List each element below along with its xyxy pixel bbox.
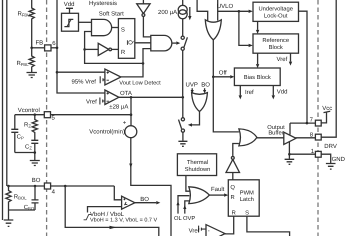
wire BO comp out arrow <box>135 202 156 204</box>
wire INV2 out to AND2 <box>143 16 150 37</box>
svg-text:OL: OL <box>174 215 183 222</box>
pin 8 DRV <box>315 134 321 140</box>
wire AND1 lower input <box>85 32 92 50</box>
ground RBOL <box>4 220 14 226</box>
wire thermal to fault OR <box>186 176 190 192</box>
wire pin7 line <box>290 122 315 124</box>
node BO ext junction 1 <box>7 185 10 188</box>
svg-text:FB: FB <box>36 40 44 47</box>
inverter INV1 <box>98 43 109 55</box>
wire UVP input arrow <box>191 88 193 90</box>
svg-text:Bias Block: Bias Block <box>244 74 271 81</box>
inverter INV3 (PWM latch Q) <box>226 159 240 172</box>
svg-text:BO: BO <box>201 81 210 88</box>
wire CP bottom <box>15 152 35 154</box>
wire BO lower input bracket <box>88 207 122 213</box>
svg-text:Vcontrol(min): Vcontrol(min) <box>89 129 125 136</box>
wire hysteresis out <box>79 21 92 23</box>
IC boundary dashed left <box>46 0 48 236</box>
resistor RFBL <box>29 48 34 72</box>
wire VLD junction down to comparator out <box>121 63 143 77</box>
pin 6 FB <box>45 45 51 51</box>
svg-text:Q: Q <box>127 40 134 45</box>
svg-text:200 µA: 200 µA <box>158 9 177 16</box>
hysteresis block <box>62 13 79 31</box>
node pin7 junction <box>306 122 309 125</box>
ground SW2 <box>178 141 187 146</box>
svg-text:R: R <box>232 211 236 217</box>
switch SW1 <box>181 36 184 39</box>
pin 1 GND <box>315 151 321 157</box>
wire SW2 to ground <box>182 132 184 141</box>
svg-text:PWM: PWM <box>240 190 254 196</box>
wire pin1 line <box>289 153 315 155</box>
comparator marks OTA <box>107 92 109 94</box>
wire latch Q to INV3 <box>232 173 234 180</box>
wire BO to comparator input <box>114 186 121 200</box>
wire VLD junction up to AND2 <box>143 49 151 64</box>
comparator OTA <box>105 90 119 105</box>
svg-text:Fault: Fault <box>211 186 225 193</box>
Vdd symbol (soft start) <box>66 8 73 13</box>
AND gate U1 (soft start) <box>92 19 112 35</box>
wire AND1 out to S <box>112 27 119 29</box>
svg-text:Q: Q <box>230 184 235 191</box>
reference Vref battery <box>100 98 105 105</box>
wire pin6 to internal <box>51 47 57 49</box>
svg-text:Thermal: Thermal <box>187 159 208 166</box>
svg-text:Lock-Out: Lock-Out <box>264 13 288 20</box>
current source Vcontrol(min) <box>125 126 137 138</box>
wire ref to bias arrow <box>257 53 259 64</box>
OR gate U6 (driver OR) <box>239 129 257 146</box>
wire Off arrow to bias <box>213 76 230 78</box>
node FB junction <box>30 47 33 50</box>
block Undervoltage Lock-Out <box>253 2 299 21</box>
resistor RFBU <box>29 0 34 48</box>
wire UVLO inputs <box>197 0 208 21</box>
ground CZ <box>30 161 40 166</box>
switch SW2 <box>181 118 184 121</box>
wire pin1 to ground <box>321 154 331 163</box>
svg-text:Vcontrol: Vcontrol <box>18 107 40 114</box>
hysteresis glyph Vbo <box>84 215 92 220</box>
wire current source down <box>131 138 171 236</box>
svg-text:Vref: Vref <box>277 56 288 63</box>
node 200uA junction <box>182 96 185 99</box>
wire fault out arrow to latch R <box>209 194 224 196</box>
pin 7 Vcc <box>315 120 321 126</box>
svg-text:Latch: Latch <box>240 196 254 203</box>
svg-text:Hysteresis: Hysteresis <box>89 0 117 7</box>
svg-text:RFBU: RFBU <box>18 10 31 17</box>
wire to INV1 <box>85 48 99 50</box>
pin 4 BO <box>44 183 50 189</box>
node BO int junction <box>64 185 67 188</box>
wire Qbar out <box>135 42 151 44</box>
wire BO pin line <box>9 185 45 187</box>
svg-text:Vdd: Vdd <box>277 89 288 96</box>
wire FB internal vertical <box>57 0 105 93</box>
svg-text:Soft Start: Soft Start <box>99 10 124 17</box>
wire buffer ground <box>288 141 290 159</box>
svg-text:RZ: RZ <box>24 122 31 129</box>
node FB-pin junction <box>56 47 59 50</box>
wire FB line <box>32 47 45 49</box>
svg-text:RFBL: RFBL <box>17 60 30 67</box>
node pin5 junction <box>130 113 133 116</box>
OR gate U4 (UVP/BO) <box>192 93 208 112</box>
svg-text:CZ: CZ <box>25 143 32 150</box>
node Off branch <box>212 76 215 79</box>
ground GND pin <box>326 164 336 170</box>
resistor RBOL <box>6 186 11 220</box>
svg-text:Off: Off <box>219 69 227 76</box>
svg-text:95% Vref: 95% Vref <box>72 79 97 86</box>
svg-text:Vcc: Vcc <box>322 105 332 112</box>
wire INV1 out to R <box>112 48 119 50</box>
wire OTA node to SW2 <box>182 97 184 117</box>
wire down to VLD net <box>85 49 143 63</box>
svg-text:R: R <box>121 49 126 56</box>
wire Vcontrol vertical <box>130 97 132 125</box>
wire Vcontrol pin line <box>15 114 44 116</box>
ground RFBL <box>27 73 37 78</box>
node OTA out junction <box>130 96 133 99</box>
wire DRV up <box>321 0 336 137</box>
capacitor CP <box>11 115 18 153</box>
OR gate U8 (fault) <box>189 187 210 204</box>
svg-text:BO: BO <box>140 196 149 203</box>
AND gate U3 (3-input) <box>151 35 172 51</box>
svg-text:+: + <box>123 120 127 126</box>
wire latch S bottom <box>247 216 290 236</box>
svg-text:±28 µA: ±28 µA <box>109 104 128 111</box>
wire OTA out <box>119 96 183 98</box>
node CZ bottom junction <box>34 151 37 154</box>
svg-text:GND: GND <box>332 156 346 163</box>
node Rz junction <box>34 113 37 116</box>
svg-text:BO: BO <box>32 177 41 184</box>
wire CBO bottom <box>9 209 36 211</box>
pin 5 Vcontrol <box>44 112 50 118</box>
wire OL input <box>178 196 189 214</box>
svg-text:Vdd: Vdd <box>64 1 75 8</box>
block Thermal Shutdown <box>177 154 216 176</box>
wire UVLO to box arrow <box>218 10 249 12</box>
inverter INV2 (top, pointing down) <box>137 0 150 14</box>
svg-text:UVLO: UVLO <box>217 3 234 10</box>
svg-text:RBOL: RBOL <box>14 193 27 200</box>
capacitor CZ <box>31 140 38 160</box>
wire UVLO box to Vcc sense <box>299 11 308 123</box>
ground buffer <box>285 159 295 164</box>
OR gate U5 (UVLO) <box>205 20 221 40</box>
wire left edge line B <box>6 0 8 186</box>
svg-text:Block: Block <box>269 44 283 51</box>
Qbar overline <box>126 40 128 45</box>
svg-text:Vout Low Detect: Vout Low Detect <box>119 80 161 86</box>
arrow down on wire <box>129 164 132 169</box>
svg-text:DRV: DRV <box>324 143 337 150</box>
wire INV3 out to OR6 <box>233 144 239 157</box>
block PWM Latch <box>228 180 259 216</box>
svg-text:CBO: CBO <box>24 204 35 211</box>
node FB branch junction <box>56 71 59 74</box>
svg-text:-: - <box>208 229 210 235</box>
wire Vdd arrow <box>272 86 274 96</box>
svg-text:OTA: OTA <box>120 90 132 97</box>
wire Vref out arrow <box>290 53 292 61</box>
svg-text:Iref: Iref <box>245 89 254 96</box>
comparator marks BO <box>123 198 125 200</box>
wire latch R bottom <box>220 216 233 234</box>
svg-text:CP: CP <box>17 133 24 140</box>
svg-text:Reference: Reference <box>262 37 289 44</box>
node inverter branch <box>83 48 86 51</box>
block Reference Block <box>253 34 299 53</box>
wire UVLO box down arrow <box>257 21 259 30</box>
wire to reference block arrow <box>239 11 249 45</box>
reference Vref battery (bottom) <box>199 226 206 233</box>
comparator marks VLD <box>107 71 109 73</box>
node pin1 junction <box>288 153 291 156</box>
wire Iref arrow <box>239 86 241 96</box>
svg-text:Vref: Vref <box>189 228 200 235</box>
svg-text:Buffer: Buffer <box>268 130 283 137</box>
wire BO input arrow <box>204 88 206 90</box>
wire OVP input <box>185 201 190 214</box>
node VLD junction <box>142 62 145 65</box>
comparator BO <box>122 196 135 209</box>
current source 200uA <box>182 0 184 5</box>
wire buffer out to pin8 <box>295 137 315 139</box>
svg-text:Shutdown: Shutdown <box>185 166 211 173</box>
svg-text:S: S <box>121 26 125 33</box>
resistor RZ <box>32 115 37 140</box>
comparator CS (bottom, clipped) <box>206 225 225 240</box>
block Bias Block <box>234 68 280 86</box>
SR latch U2 <box>118 19 134 59</box>
wire BO sense bottom <box>65 186 159 236</box>
node UVLO box branch <box>238 10 241 13</box>
wire OR6 out to buffer <box>257 137 284 139</box>
reference 95% Vref battery <box>100 76 105 83</box>
svg-text:OVP: OVP <box>183 215 195 222</box>
wire AND2 out arrow to switch1 <box>172 42 176 44</box>
IC boundary dashed right <box>317 0 319 236</box>
wire SW1 to OTA node <box>182 50 184 97</box>
svg-text:VboH = 1.3 V, VboL = 0.7 V: VboH = 1.3 V, VboL = 0.7 V <box>90 218 158 224</box>
svg-text:R: R <box>231 195 235 201</box>
wire to VLD input <box>57 71 105 73</box>
arrow 200uA direction <box>189 7 191 16</box>
svg-text:UVP: UVP <box>186 81 198 88</box>
wire left edge line A <box>2 0 4 220</box>
svg-text:Undervoltage: Undervoltage <box>258 5 292 12</box>
wire OR4 out to SW2 arrow <box>192 112 200 125</box>
svg-text:Vref: Vref <box>86 99 97 106</box>
capacitor CBO <box>32 186 39 210</box>
wire UVLO OR output down <box>213 40 239 132</box>
wire buffer supply <box>289 123 291 135</box>
svg-text:S: S <box>245 210 249 217</box>
buffer U7 (output buffer) <box>284 132 296 144</box>
node BO ext junction 2 <box>34 185 37 188</box>
Vcc symbol <box>321 111 330 123</box>
comparator VLD (Vout Low Detect) <box>105 69 121 85</box>
